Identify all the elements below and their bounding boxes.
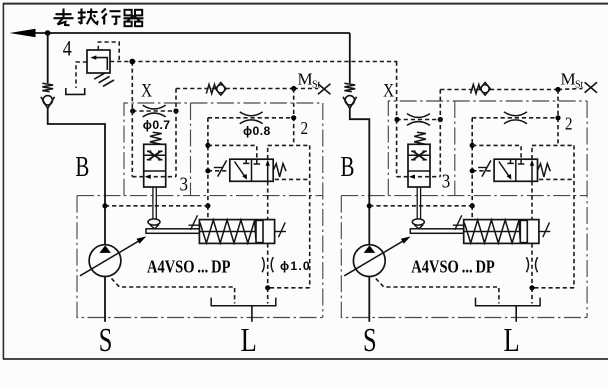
measuring point Mst cross (318, 84, 330, 94)
svg-text:S: S (363, 322, 377, 359)
pilot line: pump case drain (376, 279, 499, 304)
valve 2 left position blocked port T (245, 159, 247, 163)
pilot line: spring chamber drain box (539, 178, 574, 180)
relief valve 4 spring (94, 73, 105, 79)
pump flow triangle (99, 245, 111, 253)
pilot line: pump outlet sense to branch (105, 205, 208, 207)
pilot line: X drop (131, 62, 133, 112)
measuring point Mst cross (585, 82, 597, 92)
pilot line: to valve2 top port 1 (208, 145, 257, 159)
pilot line: relief valve output X trunk (110, 61, 397, 63)
valve 2 body (494, 159, 537, 181)
valve 2 right position through passage (531, 162, 533, 181)
svg-text:L: L (504, 321, 520, 359)
pilot line: X branch drop to pump sense (471, 118, 473, 206)
pump variable displacement arrow (80, 238, 144, 276)
valve 2 pilot actuator slash (208, 170, 230, 172)
pump variable displacement arrow (344, 238, 408, 276)
feedback ball joint (412, 219, 424, 225)
valve 2 left position blocked port T (510, 159, 512, 163)
header label 去执行器 (to actuator) (54, 9, 144, 27)
check valve on B line (ball and seat) (345, 96, 354, 105)
cylinder spring (200, 220, 256, 243)
valve 2 pilot actuator slash (472, 170, 494, 172)
valve 3 feedback rod (152, 187, 154, 219)
svg-text:3: 3 (442, 170, 451, 193)
valve 2 spring (538, 164, 551, 177)
pump housing frame (77, 196, 323, 318)
svg-text:X: X (141, 80, 152, 101)
svg-text:2: 2 (300, 118, 308, 138)
valve 3 pilot line through lower section (397, 176, 441, 178)
pilot line: pump case drain (112, 279, 235, 304)
frame partition between valve compartments (190, 103, 192, 196)
pilot line: pump outlet sense to branch (369, 205, 472, 207)
cylinder right port with drain slash (275, 231, 286, 233)
pilot line: X branch drop to pump sense (207, 118, 209, 206)
pilot line: Mst row (176, 88, 294, 90)
pilot line: spring chamber drain box (275, 178, 310, 180)
pilot line: long drain column (309, 145, 311, 287)
valve 2 right position blocked port T (256, 159, 258, 164)
valve 3 feedback rod (416, 187, 418, 219)
valve 3 spring (150, 132, 162, 144)
svg-text:St: St (575, 79, 584, 90)
valve 2 body (230, 159, 273, 181)
valve 3 body (144, 144, 166, 187)
pilot line: phi0.7 box left edge (396, 120, 398, 177)
tank symbol (66, 88, 85, 94)
wire: suction line S (104, 277, 106, 322)
node: X trunk junction (129, 59, 135, 65)
svg-text:S: S (99, 322, 113, 359)
wire: B line to pump inlet column (350, 108, 370, 245)
right circuit enclosure frame (control module) (388, 101, 587, 196)
pilot line: valve2 bottom port to cylinder right chamber (531, 181, 533, 219)
check valve on B line (ball and seat) (43, 96, 52, 105)
cylinder piston (256, 220, 263, 242)
node: pump outlet sense junction (102, 203, 107, 208)
svg-text:ϕ0.7: ϕ0.7 (143, 118, 171, 132)
wire: B line to pump inlet column (48, 108, 105, 245)
check valve in Mst line (spring, ball, seat) (471, 84, 480, 93)
valve 2 left position diagonal flow arrow (235, 162, 246, 178)
arrow to actuator (10, 29, 36, 37)
valve 3 pilot line through lower section (132, 176, 176, 178)
valve 3 spring (414, 132, 426, 144)
svg-text:M: M (561, 69, 576, 88)
relief valve 4 body (87, 50, 110, 73)
border frame top (3, 3, 608, 5)
frame boundary control/pump (341, 195, 587, 197)
check valve in Mst line (spring, ball, seat) (206, 84, 215, 93)
wire: B pressure line drop (47, 33, 49, 83)
pilot line: drain into collector (267, 288, 269, 304)
pilot line: long drain column (573, 145, 575, 287)
pilot line: orifice 0.7 row (397, 119, 441, 121)
drain collector (211, 298, 276, 306)
cylinder left port with drain slash (189, 224, 200, 226)
pilot line: to valve2 top port 1 (472, 145, 521, 159)
svg-text:X: X (383, 80, 394, 101)
svg-text:A4VSO ... DP: A4VSO ... DP (411, 257, 495, 277)
pump flow triangle (364, 245, 376, 253)
pilot line: valve2 top port 2 header (267, 145, 269, 159)
wire: B pressure line drop (349, 33, 351, 83)
drain collector (476, 298, 541, 306)
svg-text:L: L (241, 321, 257, 359)
svg-text:2: 2 (565, 113, 573, 133)
pilot line: drain into collector (531, 288, 533, 304)
cylinder right port with drain slash (539, 231, 550, 233)
valve 2 left position diagonal flow arrow (499, 162, 510, 178)
frame boundary control/pump (77, 195, 323, 197)
border frame left (2, 3, 4, 360)
stroking piston cylinder body (464, 220, 539, 244)
pilot line: X drop (396, 62, 398, 120)
svg-text:St: St (312, 79, 321, 90)
valve 2 right position blocked port T (520, 159, 522, 164)
svg-text:A4VSO ... DP: A4VSO ... DP (147, 257, 231, 277)
svg-text:ϕ0.8: ϕ0.8 (243, 124, 271, 138)
svg-text:B: B (75, 151, 89, 183)
pilot line: Mst row (440, 89, 558, 91)
wire: suction line S (368, 277, 370, 322)
cylinder spring (464, 220, 520, 243)
svg-text:4: 4 (63, 37, 72, 61)
relief valve 4 remote pilot loop (98, 42, 119, 62)
wire: leak port L (515, 306, 517, 322)
pilot line: orifice 0.8 row (472, 117, 558, 119)
pilot line: branch down to cylinder left chamber (207, 206, 209, 220)
pilot line: branch down to cylinder left chamber (471, 206, 473, 220)
cylinder left port with drain slash (453, 224, 464, 226)
pilot line: orifice 0.8 row (208, 117, 294, 119)
valve 3 body (408, 144, 430, 187)
pilot line: phi0.7 box right edge / Mst riser (175, 89, 177, 177)
node: pump outlet sense junction (367, 203, 372, 208)
pilot line: valve2 bottom port to cylinder right chamber (267, 181, 269, 219)
svg-text:M: M (298, 69, 313, 88)
relief valve 4 tank line (76, 62, 87, 88)
node: junction top line / left branch (45, 30, 51, 36)
cylinder piston rod centerline (199, 231, 256, 233)
cylinder piston (520, 220, 527, 242)
svg-text:B: B (340, 151, 354, 183)
left circuit enclosure frame (control module) (124, 103, 323, 196)
pilot line: Mst drop to orifice row (557, 90, 559, 146)
feedback lever bar (410, 229, 463, 234)
cylinder piston rod centerline (464, 231, 521, 233)
border frame bottom (3, 358, 608, 360)
pilot line: valve2 top port 2 header (531, 145, 533, 159)
pump A4VSO circle (89, 245, 121, 277)
wire: leak port L (251, 306, 253, 322)
valve 2 right position through passage (267, 162, 269, 181)
pump A4VSO circle (353, 245, 385, 277)
pilot line: orifice 0.7 row (132, 110, 176, 112)
wire: supply line to actuator (32, 32, 350, 34)
pilot line: cylinder drain via orifice 1.0 (267, 243, 269, 287)
feedback ball joint (148, 219, 160, 225)
frame partition between valve compartments (454, 101, 456, 196)
pilot line: cylinder drain via orifice 1.0 (531, 243, 533, 287)
svg-text:3: 3 (179, 173, 188, 196)
pilot line: phi0.7 box right edge / Mst riser (439, 90, 441, 177)
stroking piston cylinder body (199, 220, 274, 244)
valve 3 closed-position X mark (413, 152, 424, 160)
valve 2 spring (273, 164, 286, 177)
pilot line: phi0.7 box left edge (131, 111, 133, 177)
pilot line: Mst drop to orifice row (293, 89, 295, 146)
check valve on B line (spring) (42, 83, 53, 92)
check valve on B line (spring) (344, 83, 355, 92)
svg-text:ϕ1.0: ϕ1.0 (280, 259, 311, 273)
pump housing frame (341, 196, 587, 318)
feedback lever bar (146, 229, 199, 234)
relief valve 4 flow arrow (94, 58, 107, 70)
valve 3 closed-position X mark (149, 152, 160, 160)
